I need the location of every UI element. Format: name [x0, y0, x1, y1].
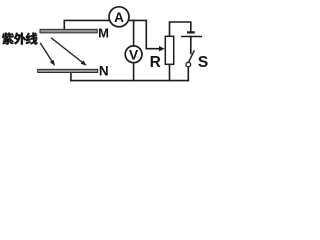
svg-text:N: N	[99, 63, 109, 78]
svg-text:R: R	[150, 54, 161, 71]
svg-text:S: S	[198, 54, 208, 71]
svg-text:V: V	[129, 47, 139, 63]
svg-text:A: A	[114, 10, 124, 25]
svg-text:M: M	[98, 25, 109, 40]
